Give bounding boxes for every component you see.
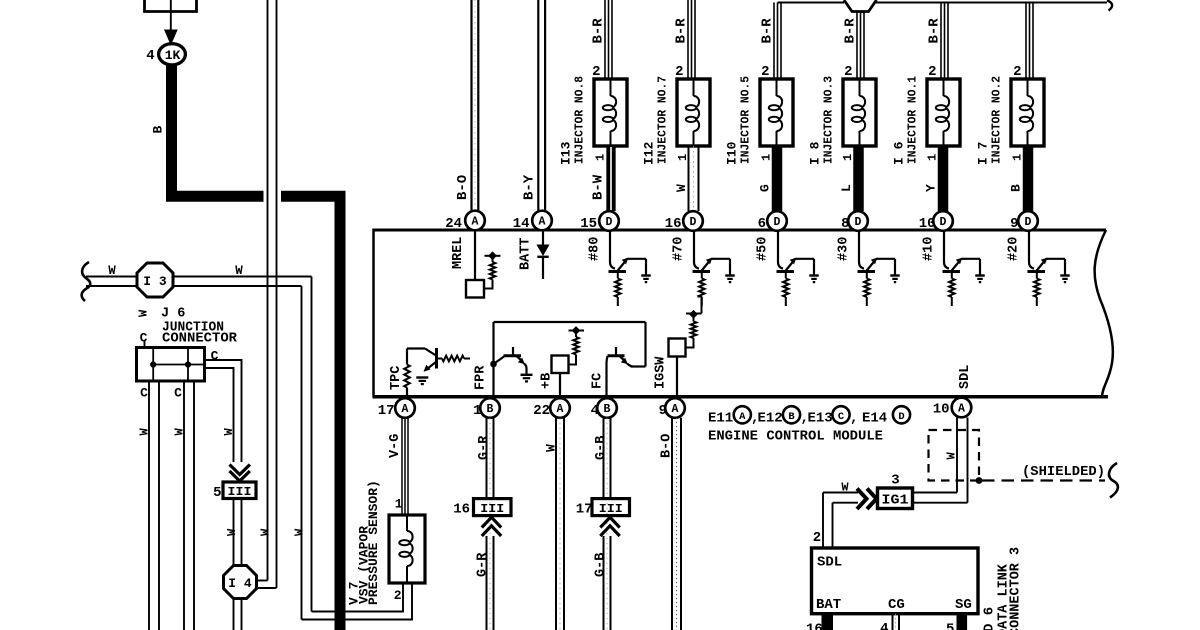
svg-text:I12: I12 bbox=[642, 141, 657, 165]
svg-text:INJECTOR NO.2: INJECTOR NO.2 bbox=[991, 76, 1004, 164]
svg-text:FPR: FPR bbox=[474, 365, 489, 390]
svg-text:4: 4 bbox=[146, 48, 154, 64]
svg-text:W: W bbox=[544, 444, 559, 452]
svg-text:1: 1 bbox=[676, 154, 690, 161]
svg-text:A: A bbox=[472, 216, 479, 229]
svg-text:D: D bbox=[606, 216, 613, 229]
svg-text:W: W bbox=[841, 481, 849, 495]
svg-text:CONNECTOR 3: CONNECTOR 3 bbox=[1009, 547, 1024, 630]
svg-text:8: 8 bbox=[841, 216, 849, 232]
svg-text:I 6: I 6 bbox=[892, 141, 907, 165]
svg-text:D: D bbox=[898, 411, 904, 423]
svg-text:III: III bbox=[480, 502, 504, 516]
svg-text:4: 4 bbox=[880, 621, 888, 630]
svg-text:W: W bbox=[945, 452, 959, 460]
svg-text:G-B: G-B bbox=[594, 553, 609, 577]
svg-text:+B: +B bbox=[540, 373, 555, 389]
svg-text:MREL: MREL bbox=[451, 237, 466, 269]
svg-text:5: 5 bbox=[213, 485, 221, 501]
svg-text:CG: CG bbox=[888, 597, 905, 613]
svg-text:15: 15 bbox=[580, 216, 597, 232]
svg-text:G: G bbox=[758, 184, 773, 192]
svg-text:SDL: SDL bbox=[817, 555, 842, 571]
svg-text:IG1: IG1 bbox=[882, 494, 909, 509]
svg-text:W: W bbox=[259, 528, 273, 536]
svg-text:2: 2 bbox=[394, 588, 402, 603]
svg-text:I 7: I 7 bbox=[976, 142, 991, 165]
svg-text:#10: #10 bbox=[922, 237, 937, 261]
svg-text:W: W bbox=[225, 528, 239, 536]
svg-text:2: 2 bbox=[813, 530, 821, 546]
svg-text:B-R: B-R bbox=[674, 18, 690, 44]
svg-text:G-B: G-B bbox=[594, 436, 609, 460]
svg-text:D: D bbox=[855, 216, 862, 229]
svg-text:PRESSURE SENSOR): PRESSURE SENSOR) bbox=[366, 480, 381, 605]
svg-text:INJECTOR NO.7: INJECTOR NO.7 bbox=[657, 76, 670, 164]
svg-text:W: W bbox=[137, 309, 151, 317]
svg-text:A: A bbox=[539, 216, 546, 229]
svg-text:A: A bbox=[958, 403, 965, 416]
svg-text:17: 17 bbox=[378, 403, 395, 419]
svg-text:1: 1 bbox=[760, 154, 774, 161]
svg-text:9: 9 bbox=[659, 403, 667, 419]
svg-text:W: W bbox=[173, 428, 187, 436]
svg-text:17: 17 bbox=[576, 502, 593, 518]
svg-text:#20: #20 bbox=[1007, 237, 1022, 261]
svg-text:INJECTOR NO.1: INJECTOR NO.1 bbox=[907, 76, 920, 164]
svg-text:B: B bbox=[604, 403, 611, 416]
svg-text:1: 1 bbox=[473, 403, 481, 419]
svg-text:III: III bbox=[228, 485, 252, 499]
svg-text:B: B bbox=[487, 403, 494, 416]
svg-text:B-W: B-W bbox=[591, 174, 607, 200]
svg-text:W: W bbox=[674, 184, 689, 192]
svg-text:SG: SG bbox=[955, 597, 972, 613]
svg-text:#80: #80 bbox=[588, 237, 603, 261]
svg-text:INJECTOR NO.3: INJECTOR NO.3 bbox=[823, 76, 836, 164]
svg-text:1: 1 bbox=[926, 154, 940, 161]
svg-text:B-Y: B-Y bbox=[522, 174, 538, 200]
svg-text:L: L bbox=[839, 184, 854, 192]
svg-text:B-R: B-R bbox=[927, 18, 943, 44]
svg-text:E11: E11 bbox=[708, 411, 733, 427]
svg-text:A: A bbox=[402, 403, 409, 416]
svg-text:A: A bbox=[557, 403, 564, 416]
svg-text:BAT: BAT bbox=[816, 597, 841, 613]
svg-text:4: 4 bbox=[591, 403, 599, 419]
svg-text:Y: Y bbox=[924, 184, 939, 192]
svg-text:24: 24 bbox=[445, 216, 462, 232]
svg-text:C: C bbox=[211, 349, 219, 364]
svg-text:16: 16 bbox=[806, 622, 823, 630]
svg-text:,: , bbox=[850, 411, 858, 427]
svg-text:BATT: BATT bbox=[519, 238, 534, 270]
svg-text:B: B bbox=[1009, 184, 1024, 192]
svg-text:B-O: B-O bbox=[660, 434, 675, 458]
svg-text:10: 10 bbox=[919, 216, 936, 232]
svg-text:1: 1 bbox=[841, 154, 855, 161]
svg-text:B: B bbox=[788, 411, 795, 423]
svg-text:B-R: B-R bbox=[760, 18, 776, 44]
svg-text:G-R: G-R bbox=[477, 435, 492, 460]
svg-text:E12: E12 bbox=[758, 411, 783, 427]
svg-text:CONNECTOR: CONNECTOR bbox=[162, 332, 238, 347]
svg-text:ENGINE CONTROL MODULE: ENGINE CONTROL MODULE bbox=[708, 429, 883, 445]
svg-text:#70: #70 bbox=[672, 237, 687, 261]
svg-text:16: 16 bbox=[665, 216, 682, 232]
svg-text:G-R: G-R bbox=[476, 552, 491, 577]
svg-text:E14: E14 bbox=[862, 411, 887, 427]
svg-text:W: W bbox=[293, 528, 307, 536]
svg-text:#30: #30 bbox=[837, 237, 852, 261]
svg-text:B-R: B-R bbox=[843, 18, 859, 44]
svg-text:#50: #50 bbox=[756, 237, 771, 261]
svg-text:1: 1 bbox=[594, 154, 608, 161]
svg-text:(SHIELDED): (SHIELDED) bbox=[1022, 464, 1105, 480]
svg-text:SDL: SDL bbox=[958, 365, 973, 389]
svg-text:A: A bbox=[672, 403, 679, 416]
svg-text:C: C bbox=[174, 386, 182, 401]
svg-text:D: D bbox=[774, 216, 781, 229]
svg-text:V-G: V-G bbox=[388, 434, 403, 458]
svg-text:22: 22 bbox=[533, 403, 550, 419]
svg-text:10: 10 bbox=[933, 402, 950, 418]
svg-text:I 8: I 8 bbox=[808, 141, 823, 165]
svg-text:TPC: TPC bbox=[389, 366, 404, 390]
svg-text:1: 1 bbox=[395, 497, 403, 512]
svg-text:I13: I13 bbox=[559, 141, 574, 165]
svg-text:B-O: B-O bbox=[455, 175, 471, 200]
svg-text:5: 5 bbox=[946, 622, 954, 630]
svg-text:I 3: I 3 bbox=[143, 274, 167, 289]
svg-text:B: B bbox=[151, 126, 166, 134]
svg-text:W: W bbox=[108, 264, 116, 278]
svg-text:1: 1 bbox=[1011, 154, 1025, 161]
svg-text:E13: E13 bbox=[808, 411, 833, 427]
svg-text:I 4: I 4 bbox=[228, 576, 252, 591]
svg-text:D 6: D 6 bbox=[982, 607, 998, 630]
svg-text:W: W bbox=[138, 428, 152, 436]
svg-text:J 6: J 6 bbox=[161, 307, 185, 322]
svg-text:6: 6 bbox=[758, 216, 766, 232]
svg-text:16: 16 bbox=[453, 502, 470, 518]
svg-text:14: 14 bbox=[513, 216, 530, 232]
svg-text:D: D bbox=[1025, 216, 1032, 229]
svg-text:3: 3 bbox=[891, 473, 899, 489]
svg-text:III: III bbox=[599, 502, 623, 516]
svg-text:INJECTOR NO.8: INJECTOR NO.8 bbox=[574, 76, 587, 164]
svg-text:I10: I10 bbox=[725, 141, 740, 165]
svg-text:D: D bbox=[940, 216, 947, 229]
svg-text:FC: FC bbox=[591, 373, 606, 389]
svg-text:1K: 1K bbox=[165, 48, 181, 63]
svg-text:IGSW: IGSW bbox=[654, 356, 669, 389]
svg-text:W: W bbox=[222, 428, 236, 436]
svg-text:C: C bbox=[838, 411, 845, 423]
svg-text:C: C bbox=[140, 386, 148, 401]
svg-text:INJECTOR NO.5: INJECTOR NO.5 bbox=[740, 76, 753, 164]
svg-text:9: 9 bbox=[1010, 216, 1018, 232]
svg-text:D: D bbox=[690, 216, 697, 229]
svg-text:W: W bbox=[235, 264, 243, 278]
svg-text:B-R: B-R bbox=[591, 18, 607, 44]
svg-text:A: A bbox=[739, 411, 746, 423]
